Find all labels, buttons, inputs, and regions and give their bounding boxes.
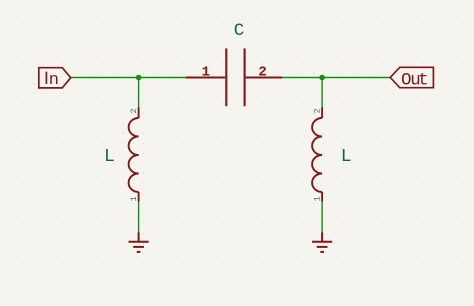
svg-text:1: 1 [202,65,210,81]
svg-text:2: 2 [129,108,139,113]
svg-text:t: t [418,70,429,90]
svg-text:L: L [341,147,352,167]
svg-text:1: 1 [313,196,323,201]
svg-text:2: 2 [258,64,266,80]
svg-text:1: 1 [129,196,139,201]
svg-text:L: L [104,147,115,167]
svg-text:n: n [49,71,59,90]
svg-text:C: C [234,21,245,41]
svg-text:2: 2 [313,108,323,113]
